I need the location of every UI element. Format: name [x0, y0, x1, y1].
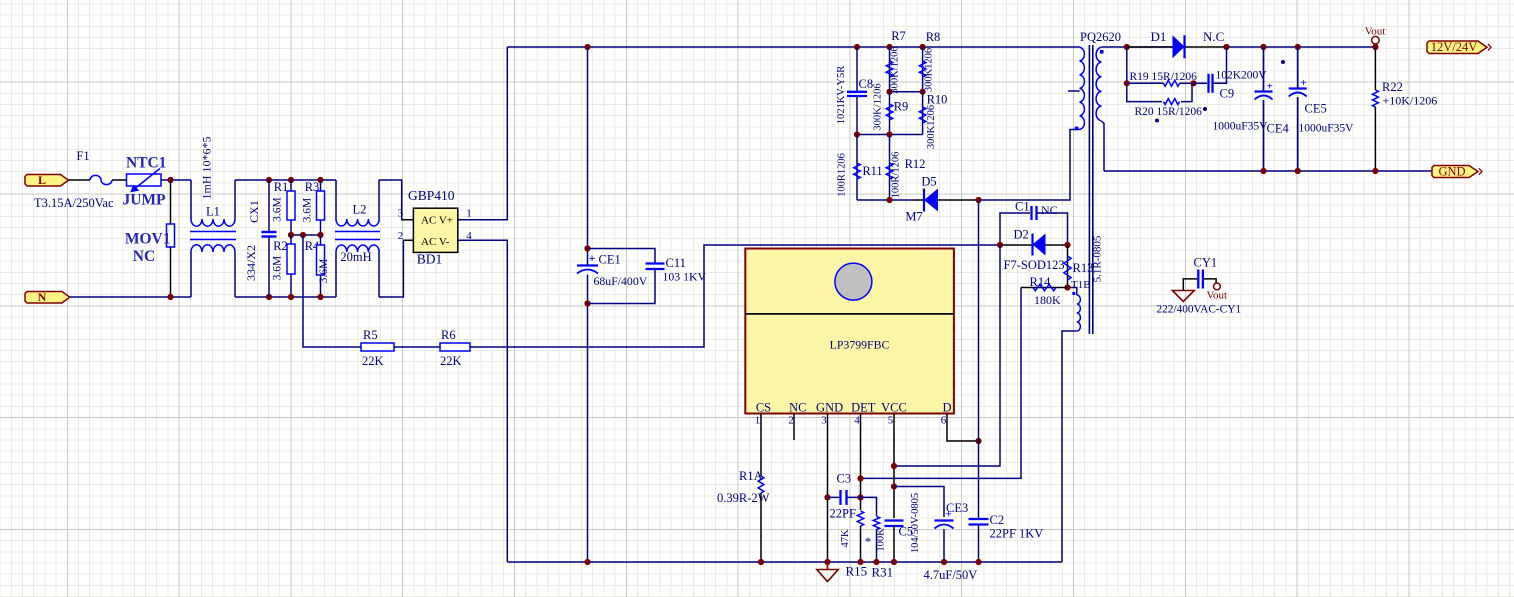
junction rail R22	[1372, 168, 1378, 174]
junction R19 right	[1190, 80, 1196, 86]
junction row2 R9	[886, 131, 892, 137]
value R8	[924, 48, 935, 92]
svg-text:1: 1	[466, 208, 472, 220]
junction D2 cathode	[1064, 242, 1070, 248]
svg-text:AC V+: AC V+	[421, 214, 453, 226]
svg-text:GND: GND	[816, 401, 843, 415]
pin name CS	[756, 401, 771, 415]
svg-text:300K/1206: 300K/1206	[890, 46, 901, 93]
svg-text:6: 6	[941, 415, 947, 427]
pin name GND	[816, 401, 843, 415]
svg-text:3.6M: 3.6M	[302, 198, 314, 223]
wire R31 to rail	[876, 530, 878, 563]
wire L2 to BD1 pin2	[379, 240, 413, 297]
svg-text:104/50V-0805: 104/50V-0805	[910, 493, 921, 553]
wire L1 bottom to CX1	[235, 296, 336, 298]
svg-text:D: D	[942, 401, 951, 415]
junction CX1 top	[266, 177, 272, 183]
junction rail VCC	[891, 559, 897, 565]
value R2 3.6M	[272, 256, 284, 281]
capacitor C2	[969, 519, 989, 525]
svg-text:CE4: CE4	[1267, 122, 1290, 136]
svg-text:Vout: Vout	[1207, 290, 1228, 302]
svg-text:R6: R6	[441, 328, 456, 342]
svg-text:222/400VAC-CY1: 222/400VAC-CY1	[1157, 304, 1242, 316]
value C5	[910, 493, 921, 553]
junction D1 anode node	[1124, 44, 1130, 50]
capacitor C3	[828, 490, 861, 505]
wire BD1 pin4 down	[458, 240, 508, 562]
label R31	[872, 565, 894, 580]
svg-text:3: 3	[398, 208, 404, 220]
svg-text:+: +	[589, 251, 596, 265]
label NTC1	[126, 155, 166, 172]
resistor R31	[873, 517, 879, 530]
wire D5 to primary	[975, 130, 1080, 201]
svg-text:F7-SOD123: F7-SOD123	[1004, 258, 1065, 272]
junction DET C3	[857, 494, 863, 500]
junction R12 bottom	[886, 197, 892, 203]
value R15 47K	[840, 529, 851, 548]
label R10	[927, 93, 948, 107]
junction rail R15	[857, 559, 863, 565]
value C3 22PF	[830, 507, 856, 521]
resistor R11	[854, 135, 861, 201]
pin 3 BD1	[398, 208, 404, 220]
svg-text:5.1R-0805: 5.1R-0805	[1092, 235, 1104, 282]
svg-text:D1: D1	[1151, 29, 1167, 44]
capacitor C1	[1000, 206, 1068, 245]
wire BD1 pin1 to top bus	[458, 47, 508, 220]
svg-text:68uF/400V: 68uF/400V	[594, 274, 648, 288]
svg-text:C1: C1	[1015, 200, 1030, 214]
svg-text:R31: R31	[872, 565, 894, 580]
label C2	[990, 513, 1005, 527]
wire R14 to DET	[861, 288, 1022, 479]
inductor L1	[190, 180, 236, 297]
svg-text:JUMP: JUMP	[122, 192, 166, 209]
junction R8 bottom	[920, 89, 926, 95]
wire NTC1 to node	[161, 179, 191, 181]
label T1B	[1071, 279, 1091, 291]
label R3	[305, 180, 320, 194]
svg-text:PQ2620: PQ2620	[1080, 30, 1121, 44]
value CE4	[1213, 121, 1269, 133]
wire snubber left	[1127, 47, 1162, 102]
svg-text:103 1KV: 103 1KV	[663, 270, 707, 284]
resistor R19	[1127, 80, 1194, 86]
value R1A	[717, 491, 770, 505]
value R11	[836, 153, 847, 197]
label CY1	[1194, 256, 1218, 270]
svg-text:R22: R22	[1382, 80, 1403, 94]
wire aux bottom down	[1062, 331, 1077, 562]
junction CE4 top	[1260, 44, 1266, 50]
junction GND C3	[824, 494, 830, 500]
varistor MOV1	[167, 224, 175, 247]
junction R13 bottom	[1064, 284, 1070, 290]
svg-text:R20 15R/1206: R20 15R/1206	[1135, 106, 1203, 118]
pin name D	[942, 401, 951, 415]
svg-text:1021KV-Y5R: 1021KV-Y5R	[836, 66, 847, 125]
svg-text:C2: C2	[990, 513, 1005, 527]
wire secondary top	[1101, 46, 1172, 48]
resistor R2	[287, 235, 295, 297]
svg-text:DET: DET	[851, 401, 876, 415]
ic U1 LP3799FBC body	[745, 249, 954, 414]
svg-text:300K1206: 300K1206	[926, 105, 937, 149]
svg-text:T3.15A/250Vac: T3.15A/250Vac	[34, 196, 114, 210]
svg-text:BD1: BD1	[417, 252, 443, 267]
svg-text:+: +	[945, 509, 951, 521]
label PQ2620	[1080, 30, 1121, 44]
value CE3	[924, 568, 978, 582]
wire L1 top to CX1	[235, 179, 336, 181]
wire R6 to VCC node	[470, 245, 1000, 347]
label D5	[921, 175, 936, 189]
junction R1 top	[288, 177, 294, 183]
label CE4	[1267, 122, 1290, 136]
svg-text:R5: R5	[363, 328, 378, 342]
wire CE3 branch	[894, 487, 944, 518]
capacitor C5	[885, 521, 904, 527]
fuse F1	[90, 175, 112, 184]
wire pin5 VCC down	[893, 414, 895, 519]
svg-text:12V/24V: 12V/24V	[1431, 40, 1478, 54]
pin 2 BD1	[398, 230, 404, 242]
pin name VCC	[881, 401, 907, 415]
pin number 4	[854, 415, 860, 427]
svg-text:300K/1206: 300K/1206	[873, 83, 884, 130]
wire pin3 GND down	[827, 414, 829, 563]
svg-text:4.7uF/50V: 4.7uF/50V	[924, 568, 978, 582]
label D2	[1014, 228, 1029, 242]
junction R19 left	[1124, 80, 1130, 86]
svg-text:GBP410: GBP410	[408, 188, 455, 203]
wire C2 to rail	[978, 525, 980, 563]
value R10	[926, 105, 937, 149]
junction R4 bottom	[317, 294, 323, 300]
wire sense row left	[857, 199, 912, 201]
label LP3799FBC	[830, 338, 890, 352]
wire pin2 NC stub	[793, 414, 795, 441]
svg-text:20mH: 20mH	[340, 250, 371, 264]
value R1 3.6M	[272, 197, 284, 222]
svg-text:CX1: CX1	[247, 200, 261, 223]
svg-text:22PF: 22PF	[830, 507, 856, 521]
label CE1	[599, 253, 621, 267]
pin number 1	[755, 415, 761, 427]
resistor R12	[886, 135, 893, 201]
power marker Vout CY1	[1207, 283, 1228, 302]
svg-text:1: 1	[755, 415, 761, 427]
wire D1 pins	[1127, 46, 1227, 48]
svg-text:C3: C3	[837, 472, 852, 486]
diode D1	[1173, 35, 1185, 58]
resistor R9	[886, 92, 893, 135]
svg-text:22K: 22K	[362, 354, 384, 368]
value R3 3.6M	[302, 198, 314, 223]
resistor R20	[1164, 83, 1193, 104]
junction mid tap	[300, 232, 306, 238]
junction R1 bottom	[288, 232, 294, 238]
pin name NC	[789, 401, 806, 415]
capacitor C11	[588, 249, 665, 304]
svg-text:1000uF35V: 1000uF35V	[1299, 123, 1355, 135]
junction pin6 node	[975, 438, 981, 444]
capacitor CE1	[577, 251, 598, 274]
label R4	[305, 239, 320, 253]
wire mid tap down	[303, 235, 361, 347]
value D2	[1004, 258, 1065, 272]
svg-text:3: 3	[821, 415, 827, 427]
junction rail CE4	[1260, 168, 1266, 174]
svg-text:VCC: VCC	[881, 401, 907, 415]
junction L node	[167, 177, 173, 183]
wire L port to fuse	[69, 179, 91, 181]
label M7	[905, 210, 922, 224]
junction R7 bottom	[886, 89, 892, 95]
svg-text:47K: 47K	[840, 529, 851, 548]
svg-text:R11: R11	[862, 164, 882, 178]
resistor R8	[919, 47, 926, 92]
diode D2	[1033, 234, 1046, 256]
svg-text:GND: GND	[1438, 164, 1465, 178]
junction R3 bottom	[317, 232, 323, 238]
ground symbol	[817, 562, 838, 582]
junction R2 bottom	[288, 294, 294, 300]
ground symbol CY1	[1172, 291, 1194, 302]
svg-text:L: L	[38, 173, 46, 187]
port N	[25, 290, 70, 304]
wire aux top	[1068, 288, 1077, 296]
svg-text:1mH 10*6*5: 1mH 10*6*5	[200, 137, 214, 200]
wire D5 pins	[912, 199, 975, 201]
star mark	[865, 535, 871, 549]
svg-text:22PF 1KV: 22PF 1KV	[990, 527, 1044, 541]
capacitor CE4	[1255, 47, 1273, 171]
svg-text:T1B: T1B	[1071, 279, 1091, 291]
svg-text:3.6M: 3.6M	[272, 197, 284, 222]
label R9	[894, 100, 909, 114]
resistor R1A	[758, 476, 764, 493]
value transformer	[1092, 235, 1104, 282]
svg-text:NC: NC	[789, 401, 806, 415]
svg-text:D2: D2	[1014, 228, 1029, 242]
wire drain node down	[978, 200, 980, 519]
wire CE3 to rail	[943, 529, 945, 562]
junction R3 top	[317, 177, 323, 183]
label R8	[926, 30, 941, 44]
junction VCC feed	[891, 463, 897, 469]
value R31 100K	[876, 528, 887, 552]
junction R22 top	[1372, 44, 1378, 50]
transformer core	[1089, 45, 1092, 334]
value CE1	[594, 274, 648, 288]
wire L2 to BD1 pin3	[379, 180, 413, 220]
label C1 NC	[1041, 203, 1058, 217]
wire gnd rail	[1104, 170, 1432, 172]
junction VCC CE3	[891, 483, 897, 489]
label R14	[1030, 275, 1052, 289]
pin 4 BD1	[466, 230, 472, 242]
wire bottom rail	[507, 561, 1062, 563]
svg-text:NC: NC	[133, 248, 155, 265]
label C9	[1220, 87, 1235, 101]
inductor L2	[335, 180, 380, 297]
junction rail C2	[975, 559, 981, 565]
transformer tap stub	[1068, 90, 1080, 92]
svg-text:5: 5	[888, 415, 894, 427]
port L	[25, 173, 69, 187]
mark dot 2	[1203, 107, 1207, 111]
label GBP410	[408, 188, 455, 203]
svg-text:N: N	[38, 290, 47, 304]
svg-text:+10K/1206: +10K/1206	[1383, 94, 1438, 108]
capacitor CX1	[262, 180, 277, 297]
wire R31 branch	[861, 497, 877, 516]
capacitor C8	[847, 47, 867, 135]
wire CE1 down	[587, 275, 589, 563]
mark dot 3	[1155, 119, 1159, 123]
thermistor NTC1	[127, 169, 162, 193]
pin stub BD1 1	[458, 219, 470, 221]
resistor R3	[317, 180, 325, 235]
value R6 22K	[440, 354, 462, 368]
svg-text:R9: R9	[894, 100, 909, 114]
label L1	[206, 205, 220, 219]
value 334/X2	[244, 245, 258, 281]
pin stub BD1 3	[402, 219, 414, 221]
resistor R5	[361, 343, 394, 351]
junction CE5 top	[1295, 44, 1301, 50]
value C2	[990, 527, 1044, 541]
label R19	[1130, 71, 1198, 83]
svg-text:3.6M: 3.6M	[318, 259, 330, 284]
wire D2 pins	[1000, 244, 1068, 246]
value 20mH	[340, 250, 371, 264]
svg-text:C8: C8	[859, 77, 874, 91]
svg-text:CY1: CY1	[1194, 256, 1218, 270]
svg-text:NTC1: NTC1	[126, 155, 166, 172]
resistor R10	[919, 92, 926, 135]
junction N node	[167, 294, 173, 300]
label CE3	[946, 501, 968, 515]
label D1	[1151, 29, 1167, 44]
junction bus R7	[886, 44, 892, 50]
label C11	[666, 256, 686, 270]
svg-text:D5: D5	[921, 175, 936, 189]
value C11	[663, 270, 707, 284]
value R7	[890, 46, 901, 93]
wire N port to node	[70, 296, 191, 298]
wire R1A to rail	[760, 493, 762, 562]
power marker Vout	[1365, 26, 1386, 45]
label R11	[862, 164, 882, 178]
svg-text:R12: R12	[905, 157, 926, 171]
svg-text:F1: F1	[76, 149, 89, 163]
svg-text:+: +	[1300, 77, 1306, 89]
capacitor CE5	[1289, 47, 1307, 171]
svg-text:*: *	[865, 535, 871, 549]
junction bus R8	[920, 44, 926, 50]
pin stub BD1 2	[403, 239, 413, 241]
label C8	[859, 77, 874, 91]
label L1 value	[200, 137, 214, 200]
pin number 3	[821, 415, 827, 427]
junction bus CE1	[584, 44, 590, 50]
value R9	[873, 83, 884, 130]
resistor R7	[886, 47, 893, 92]
junction rail GND	[824, 559, 830, 565]
value R4 3.6M	[318, 259, 330, 284]
ic U1 circle	[835, 263, 872, 300]
svg-text:2: 2	[788, 415, 794, 427]
svg-text:MOV1: MOV1	[125, 231, 171, 248]
resistor R22	[1372, 47, 1378, 171]
label MOV1	[125, 231, 171, 248]
diode D5	[924, 189, 938, 212]
wire MOV branch	[170, 180, 172, 297]
port GND	[1432, 164, 1482, 178]
svg-text:22K: 22K	[440, 354, 462, 368]
label R5	[363, 328, 378, 342]
pin 1 BD1	[466, 208, 472, 220]
wire row R7R8	[890, 91, 923, 93]
value C9 102K200V	[1216, 70, 1268, 82]
wire bus down to CE1	[587, 47, 589, 266]
capacitor CY1	[1183, 270, 1216, 291]
label R12	[905, 157, 926, 171]
label BD1	[417, 252, 443, 267]
value R22	[1383, 94, 1438, 108]
wire output bus	[1227, 46, 1376, 48]
value T3.15A/250Vac	[34, 196, 114, 210]
resistor R15	[857, 511, 863, 526]
junction CE1 bottom	[584, 300, 590, 306]
svg-text:C11: C11	[666, 256, 686, 270]
label CE5	[1305, 102, 1327, 116]
pin number 5	[888, 415, 894, 427]
wire C5 to rail	[893, 526, 895, 562]
svg-text:300K1206: 300K1206	[924, 48, 935, 92]
svg-text:R8: R8	[926, 30, 941, 44]
value CE5	[1299, 123, 1355, 135]
junction DET R14	[857, 475, 863, 481]
label CX1	[247, 200, 261, 223]
capacitor C9	[1194, 47, 1227, 93]
svg-text:AC V-: AC V-	[421, 236, 450, 248]
label R15	[846, 564, 868, 579]
svg-text:LP3799FBC: LP3799FBC	[830, 338, 890, 352]
svg-text:NC: NC	[1041, 203, 1058, 217]
wire R15 to rail	[860, 526, 862, 562]
junction rail CE3	[941, 559, 947, 565]
svg-text:R10: R10	[927, 93, 948, 107]
wire R5 to R6	[394, 346, 440, 348]
wire pin6 D	[947, 414, 979, 442]
resistor R13	[1064, 245, 1071, 288]
label R7	[891, 29, 906, 43]
svg-text:M7: M7	[905, 210, 922, 224]
resistor R14	[1021, 284, 1068, 290]
label R1A	[739, 469, 763, 483]
svg-text:2: 2	[398, 230, 404, 242]
transformer primary winding	[1075, 47, 1085, 130]
svg-text:L1: L1	[206, 205, 220, 219]
transformer aux winding T1B	[1072, 292, 1080, 331]
svg-text:CE1: CE1	[599, 253, 621, 267]
